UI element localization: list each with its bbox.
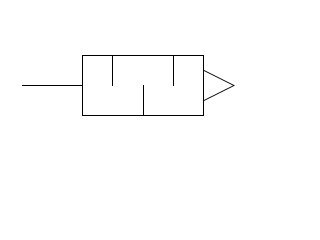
silencer body rectangle: [83, 56, 204, 116]
exhaust triangle (open, pointing right): [204, 71, 234, 101]
baffle line 2 (from bottom, 1/2 width): [143, 85, 145, 116]
wire (input line to port 1): [22, 85, 83, 87]
baffle line 3 (from top, 3/4 width): [173, 56, 175, 87]
baffle line 1 (from top, 1/4 width): [112, 56, 114, 87]
